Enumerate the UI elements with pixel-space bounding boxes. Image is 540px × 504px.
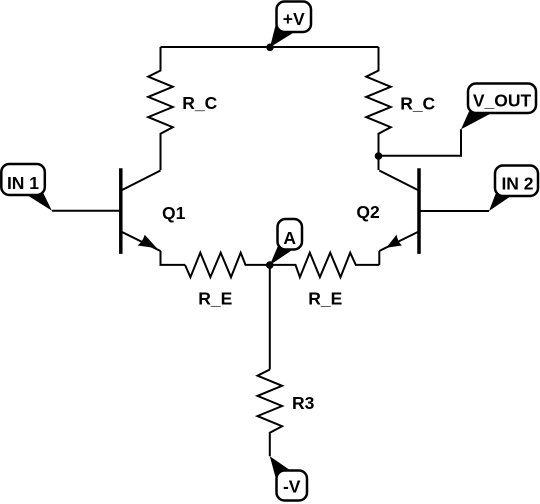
resistor R_C right (vertical): [366, 47, 391, 156]
svg-text:+V: +V: [283, 9, 305, 29]
wire Q1 emitter to R_E left: [161, 251, 186, 265]
net flag IN 1: [1, 164, 52, 211]
svg-text:R_C: R_C: [400, 94, 435, 114]
transistor Q2: [379, 168, 419, 254]
svg-text:R_C: R_C: [182, 93, 217, 113]
node junction dot top: [266, 44, 274, 52]
svg-text:Q1: Q1: [162, 203, 186, 223]
svg-text:V_OUT: V_OUT: [473, 90, 532, 110]
resistor R_E right (horizontal): [270, 253, 380, 278]
net flag +V: [270, 2, 311, 48]
net flag A: [270, 219, 302, 265]
resistor R_E left (horizontal): [185, 253, 270, 278]
wire Q2 collector stub: [378, 156, 380, 170]
net flag IN 2: [489, 166, 538, 212]
wire node A down to R3: [269, 265, 271, 370]
svg-text:R_E: R_E: [198, 288, 232, 308]
transistor Q1: [121, 168, 161, 254]
svg-text:R3: R3: [292, 393, 315, 413]
wire Q2 emitter to R_E right: [378, 251, 380, 265]
resistor R3 (vertical): [258, 370, 283, 457]
net flag V_OUT: [461, 84, 536, 130]
svg-text:A: A: [283, 228, 296, 248]
wire IN 1 base wire: [52, 210, 120, 212]
svg-text:R_E: R_E: [308, 288, 342, 308]
net flag -V: [270, 456, 307, 500]
node junction dot V_OUT: [375, 152, 383, 160]
wire V_OUT branch: [379, 129, 462, 156]
node A junction dot: [266, 261, 274, 269]
svg-text:IN 2: IN 2: [501, 174, 533, 194]
wire top rail +V: [161, 46, 379, 48]
svg-text:-V: -V: [283, 477, 301, 497]
resistor R_C left (vertical): [148, 47, 173, 170]
svg-text:IN 1: IN 1: [7, 173, 39, 193]
wire IN 2 base wire: [420, 210, 489, 212]
svg-text:Q2: Q2: [356, 202, 380, 222]
